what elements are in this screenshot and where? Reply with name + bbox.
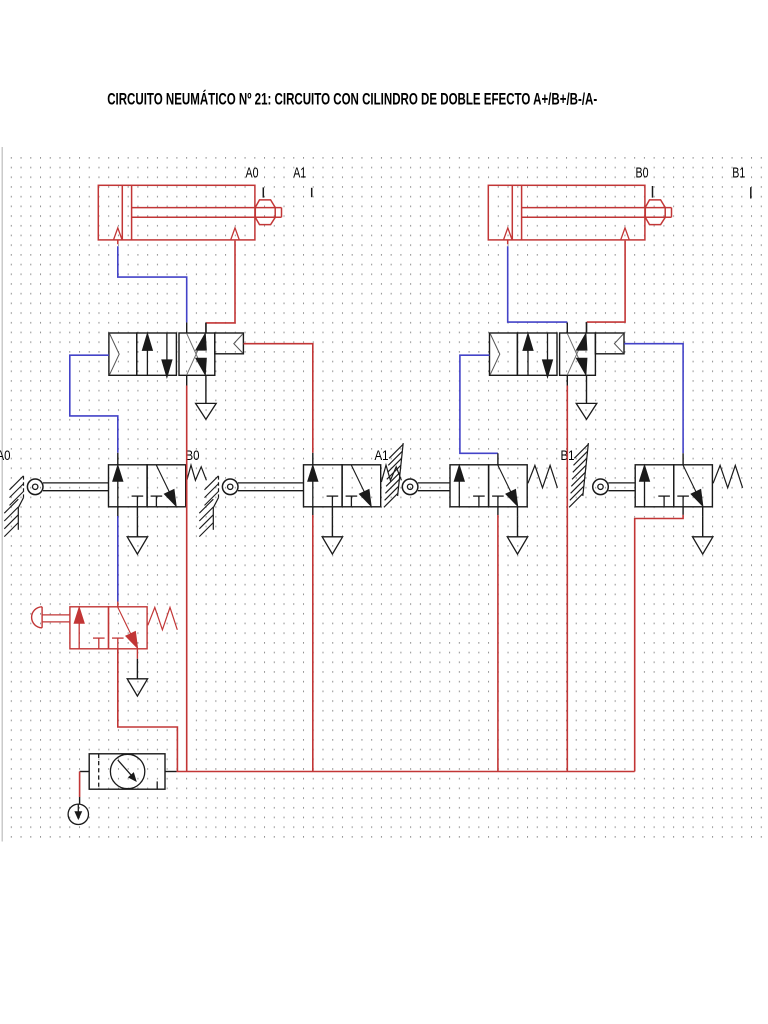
stub: V2 port2 elbow (black) bbox=[586, 322, 588, 333]
wire: air source to service unit (red) bbox=[79, 772, 81, 798]
svg-text:A1: A1 bbox=[293, 165, 306, 181]
5/2 double pilot valve V1 bbox=[109, 322, 244, 419]
svg-text:B1: B1 bbox=[732, 165, 745, 181]
stub: valve B0 top port (black) bbox=[312, 453, 314, 465]
cylinder B (double acting, red) bbox=[488, 185, 671, 240]
svg-text:A0: A0 bbox=[0, 448, 11, 463]
cylinder A (double acting, red) bbox=[98, 185, 281, 240]
stub: valve A0 top port (black) bbox=[117, 453, 119, 465]
wire: start valve S1 port 1 to supply bus (red) bbox=[118, 649, 178, 771]
svg-text:A0: A0 bbox=[246, 165, 259, 181]
label B1 position tick bbox=[750, 187, 752, 198]
wire: V1 left pilot to valve A0 output (blue) bbox=[70, 355, 118, 453]
stub: valve B0 bottom port (black) bbox=[312, 507, 314, 515]
limit switch cam wall for valve A0 bbox=[4, 476, 23, 537]
wire: cylinder B right port to valve V2 port 2 (red) bbox=[587, 241, 625, 323]
wire: cylinder A right port to valve V1 port 2 (red) bbox=[206, 241, 235, 323]
limit switch cam wall for valve A1 bbox=[384, 443, 403, 507]
3/2 valve B0 (actuated roller limit valve) bbox=[186, 448, 402, 554]
stub: valve A0 bottom port (black) bbox=[117, 507, 119, 516]
svg-text:B0: B0 bbox=[186, 448, 200, 463]
wire: valve A0 port 1 to start valve S1 output (blue) bbox=[117, 516, 119, 602]
wire: V2 right pilot to valve B1 output (blue) bbox=[624, 344, 683, 454]
5/2 double pilot valve V2 bbox=[490, 322, 625, 419]
wire: V1 right pilot to valve B0 output (red) bbox=[244, 344, 313, 453]
wire: valve B0 port 1 to supply bus (red) bbox=[312, 515, 314, 772]
stub: valve B1 top port (black) bbox=[682, 453, 684, 465]
stub: cylinder A left port (red) bbox=[117, 240, 119, 244]
stub: valve A1 top port (black) bbox=[497, 453, 499, 465]
wire: V2 left pilot to valve A1 output (blue) bbox=[460, 355, 498, 453]
canvas left border bbox=[1, 147, 3, 842]
canvas dot grid bbox=[4, 152, 766, 841]
limit switch cam wall for valve B1 bbox=[569, 443, 588, 507]
wire: cylinder A left port to valve V1 port 4 (blue) bbox=[118, 246, 187, 322]
svg-text:A1: A1 bbox=[375, 448, 389, 463]
wire: valve V1 port 1 to supply bus (red) bbox=[186, 386, 188, 772]
stub: V1 port2 elbow (black) bbox=[205, 323, 207, 333]
label B0 position tick bbox=[652, 186, 654, 198]
svg-text:B0: B0 bbox=[636, 165, 649, 181]
stub: valve A1 bottom port (black) bbox=[497, 507, 499, 515]
stub: cylinder B left port (red) bbox=[507, 240, 509, 244]
air service unit Z1 (filter/regulator with gauge) bbox=[80, 754, 177, 789]
limit switch cam wall for valve B0 bbox=[199, 476, 218, 537]
compressed air source P bbox=[68, 804, 88, 824]
stub: source connection (black) bbox=[79, 797, 81, 804]
label A1 position tick bbox=[311, 188, 313, 197]
svg-text:CIRCUITO NEUMÁTICO Nº 21: CIRC: CIRCUITO NEUMÁTICO Nº 21: CIRCUITO CON C… bbox=[107, 89, 597, 108]
wire: valve V2 port 1 to supply bus (red) bbox=[566, 386, 568, 772]
label A0 position tick bbox=[262, 187, 264, 197]
3/2 valve A1 (roller limit valve) bbox=[375, 448, 558, 554]
wire: cylinder B left port to valve V2 port 4 (blue) bbox=[508, 246, 568, 322]
3/2 valve S1 START pushbutton valve (red) bbox=[32, 607, 178, 696]
3/2 valve A0 (actuated roller limit valve) bbox=[0, 448, 206, 554]
stub: valve B1 bottom port (black) bbox=[682, 507, 684, 515]
3/2 valve B1 (roller limit valve) bbox=[561, 448, 743, 554]
wire: air supply bus (red) bbox=[177, 771, 635, 773]
wire: valve B1 port 1 to supply bus (red) bbox=[635, 515, 683, 772]
wire: valve A1 port 1 to supply bus (red) bbox=[497, 515, 499, 772]
stub: start valve S1 top port (red) bbox=[117, 602, 119, 607]
